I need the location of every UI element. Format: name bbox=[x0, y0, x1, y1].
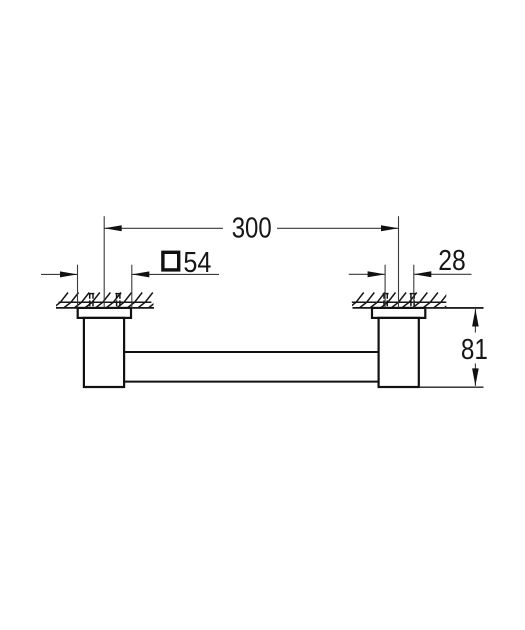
svg-text:54: 54 bbox=[183, 247, 211, 279]
svg-text:28: 28 bbox=[438, 245, 466, 277]
svg-text:81: 81 bbox=[461, 334, 488, 366]
svg-text:300: 300 bbox=[232, 212, 272, 244]
